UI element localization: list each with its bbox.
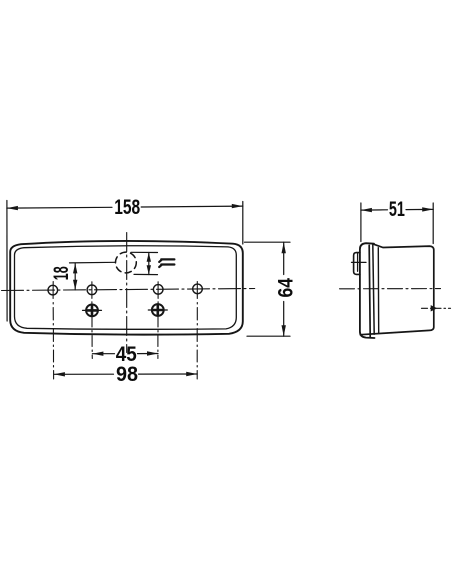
dimension 18 line [74, 263, 76, 290]
dimension 158 line [7, 206, 243, 208]
dimension 11 line [148, 253, 150, 275]
front view inner outline [15, 246, 237, 330]
dimension 64 extension lines [245, 242, 291, 336]
screw S2 tick [148, 309, 167, 311]
side view tab cross mark [352, 253, 367, 271]
dimension 51 arrows [361, 207, 433, 212]
dimension 51 extension lines [361, 203, 433, 244]
dimension 51 line [361, 208, 433, 211]
screw S2 [152, 304, 164, 316]
dimension 11 arrows [147, 253, 151, 275]
dimension 45 arrows [92, 351, 158, 356]
hole H1 centerline [52, 282, 55, 380]
dimension 64 line [283, 242, 285, 336]
hole H3 [153, 285, 163, 295]
hole H2 [87, 285, 97, 295]
front view outer outline [10, 241, 243, 335]
dimension 158 arrows [7, 204, 243, 210]
side view housing outline [360, 244, 434, 335]
side view mounting tab [354, 253, 360, 275]
front view vertical centerline [126, 233, 128, 353]
screw S1 tick [83, 309, 102, 311]
side view lens seam line L1 [369, 245, 370, 337]
dimension 98 arrows [54, 372, 197, 377]
svg-text:158: 158 [114, 196, 140, 219]
dimension 45 line [92, 353, 158, 355]
side view lens rim line L2 [373, 244, 374, 334]
side view housing front edge L3 [377, 248, 379, 334]
svg-text:18: 18 [50, 266, 73, 280]
label 11 [159, 259, 174, 267]
side view horizontal centerline [340, 288, 441, 290]
cable entry arrow line [422, 307, 451, 309]
dimension 18 extension line [70, 261, 116, 264]
svg-text:98: 98 [116, 363, 138, 386]
screw S1 [86, 305, 98, 317]
dimension 18 arrows [73, 263, 77, 290]
dimension 64 arrows [282, 242, 286, 336]
dimension 158 extension lines [7, 201, 243, 322]
dimension 98 line [54, 373, 197, 375]
hole H4 [193, 284, 203, 294]
hidden circle (side marker), dashed [116, 252, 137, 273]
cable entry arrowhead [431, 305, 438, 311]
hole H3 centerline [157, 282, 159, 359]
svg-text:51: 51 [389, 198, 405, 221]
side view lens outline [360, 243, 375, 338]
hole H4 centerline [196, 282, 198, 380]
svg-text:64: 64 [275, 278, 298, 298]
dimension 11 extension lines [131, 252, 158, 274]
hole H1 [48, 285, 58, 295]
front view horizontal centerline [2, 289, 255, 291]
hole H2 centerline [91, 282, 93, 359]
